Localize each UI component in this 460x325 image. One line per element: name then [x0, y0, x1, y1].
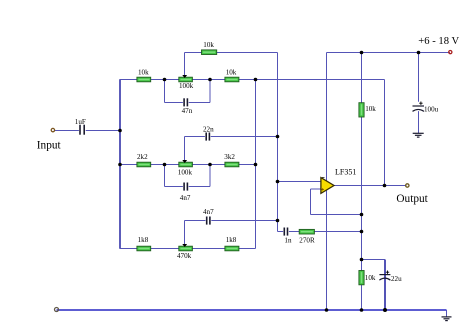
svg-text:LF351: LF351	[335, 168, 356, 177]
svg-text:3k2: 3k2	[224, 153, 235, 161]
svg-text:4n7: 4n7	[180, 194, 191, 202]
svg-text:470k: 470k	[177, 252, 192, 260]
svg-text:47n: 47n	[182, 107, 193, 115]
svg-text:10k: 10k	[365, 105, 376, 113]
svg-text:100k: 100k	[178, 169, 193, 177]
svg-text:10k: 10k	[203, 41, 214, 49]
svg-text:+6 - 18 V: +6 - 18 V	[418, 36, 459, 47]
svg-text:22n: 22n	[203, 125, 214, 133]
svg-text:1k8: 1k8	[138, 236, 149, 244]
svg-text:1k8: 1k8	[226, 236, 237, 244]
svg-text:1uF: 1uF	[75, 118, 86, 126]
svg-text:Input: Input	[37, 140, 62, 152]
svg-text:10k: 10k	[226, 69, 237, 77]
svg-text:22u: 22u	[391, 275, 402, 283]
svg-text:100k: 100k	[179, 82, 194, 90]
svg-text:2k2: 2k2	[137, 153, 148, 161]
svg-text:10k: 10k	[365, 274, 376, 282]
svg-text:1n: 1n	[284, 236, 292, 244]
svg-text:270R: 270R	[299, 236, 315, 244]
svg-text:Output: Output	[396, 193, 428, 205]
svg-text:100u: 100u	[424, 105, 439, 113]
svg-text:4n7: 4n7	[203, 208, 214, 216]
svg-text:10k: 10k	[138, 69, 149, 77]
